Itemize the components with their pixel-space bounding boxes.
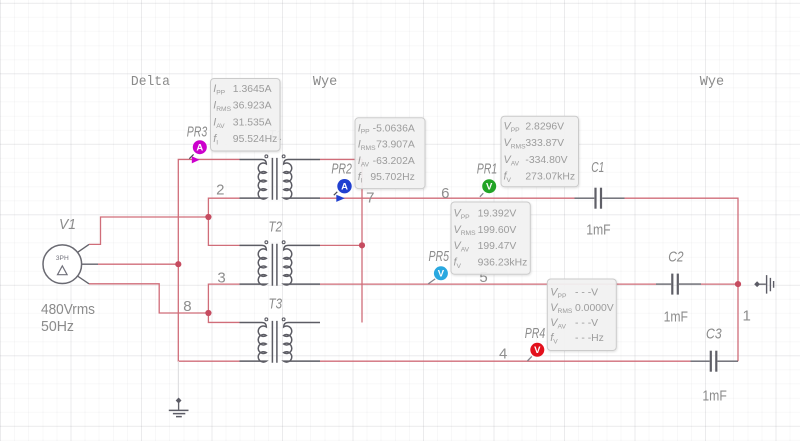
svg-text:1mF: 1mF	[586, 221, 610, 238]
svg-text:95.702Hz: 95.702Hz	[370, 172, 414, 183]
ground rotated at node 1	[754, 275, 773, 294]
label C3	[706, 326, 722, 342]
svg-text:V: V	[486, 182, 493, 193]
svg-text:1: 1	[743, 308, 751, 325]
svg-text:T2: T2	[269, 220, 283, 236]
svg-text:73.907A: 73.907A	[376, 140, 415, 151]
node 5	[479, 269, 487, 286]
svg-text:C1: C1	[591, 160, 604, 176]
text Wye left	[313, 74, 337, 90]
svg-text:V: V	[438, 269, 445, 280]
probe readout PR5	[451, 202, 530, 274]
probe PR5	[428, 266, 448, 284]
value 1mF C3	[702, 387, 726, 404]
svg-text:3: 3	[217, 269, 225, 286]
label V1	[59, 217, 76, 233]
junction node 2 / V1 top terminal	[205, 214, 211, 220]
voltage source V1	[43, 244, 98, 283]
svg-text:0.0000V: 0.0000V	[575, 303, 614, 314]
text Wye right	[700, 74, 724, 90]
capacitor C3	[691, 351, 739, 372]
junction node 8	[205, 310, 211, 316]
svg-text:-334.80V: -334.80V	[525, 155, 567, 166]
wire net 6/7 horizontal to C1	[320, 197, 575, 199]
node 3	[217, 269, 225, 286]
transformer T2	[240, 241, 321, 286]
junction at V1 middle terminal	[175, 261, 181, 267]
svg-text:A: A	[341, 182, 348, 193]
svg-text:-5.0636A: -5.0636A	[373, 123, 415, 134]
svg-text:PR3: PR3	[187, 124, 208, 140]
wire left vertical trunk T1 primary top to T3 primary bottom	[178, 159, 239, 361]
svg-text:- - -V: - - -V	[575, 318, 598, 329]
svg-text:95.524Hz: 95.524Hz	[233, 134, 277, 145]
svg-text:4: 4	[499, 345, 507, 362]
svg-text:- - -Hz: - - -Hz	[575, 333, 604, 344]
svg-text:273.07kHz: 273.07kHz	[525, 172, 575, 183]
svg-text:A: A	[196, 143, 203, 154]
label T1	[269, 128, 283, 144]
node 1	[743, 308, 751, 325]
label PR1	[477, 161, 498, 177]
wire to ground (0V net, light gray)	[177, 361, 179, 397]
svg-text:C3: C3	[706, 326, 722, 342]
wire V1 middle terminal to left vertical	[98, 263, 178, 265]
svg-text:-63.202A: -63.202A	[373, 156, 415, 167]
node 2	[216, 181, 224, 198]
wire C2 right to node 1 vertical	[701, 283, 737, 285]
svg-text:1mF: 1mF	[702, 387, 726, 404]
svg-text:2: 2	[216, 181, 224, 198]
wire T2 secondary top to net 7 junction	[320, 244, 362, 246]
transformer T3	[240, 318, 321, 363]
node 6	[441, 185, 449, 202]
capacitor C1	[575, 188, 625, 209]
svg-text:8: 8	[183, 298, 191, 315]
svg-text:7: 7	[366, 189, 374, 206]
label PR5	[428, 249, 449, 265]
svg-text:480Vrms: 480Vrms	[41, 301, 95, 318]
node 4	[499, 345, 507, 362]
wire node 3 to T3 primary top	[208, 284, 239, 322]
probe PR2	[334, 179, 352, 202]
svg-text:3PH: 3PH	[56, 255, 69, 262]
svg-text:Delta: Delta	[131, 74, 170, 90]
svg-text:333.87V: 333.87V	[525, 138, 564, 149]
svg-text:19.392V: 19.392V	[478, 209, 517, 220]
svg-text:- - -V: - - -V	[575, 288, 598, 299]
svg-text:PR5: PR5	[428, 249, 449, 265]
wire C1 right to right vertical down to C3	[625, 198, 739, 361]
probe readout PR4	[547, 279, 616, 351]
label PR2	[331, 162, 352, 178]
svg-text:199.60V: 199.60V	[478, 225, 517, 236]
text Delta	[131, 74, 170, 90]
label PR4	[525, 326, 546, 342]
svg-text:PR1: PR1	[477, 161, 498, 177]
label C1	[591, 160, 604, 176]
value 1mF C2	[664, 308, 688, 325]
label C2	[668, 249, 683, 265]
wire net 5 from T2 secondary bottom to C2	[320, 283, 656, 285]
ground	[169, 398, 189, 417]
svg-text:V: V	[534, 345, 541, 356]
capacitor C2	[656, 274, 701, 295]
junction net 7 at T2 secondary top	[359, 242, 365, 248]
wire net 4 from T3 secondary bottom to C3	[320, 360, 691, 362]
svg-text:1mF: 1mF	[664, 308, 688, 325]
svg-text:50Hz: 50Hz	[41, 318, 74, 335]
svg-text:2.8296V: 2.8296V	[525, 122, 564, 133]
svg-text:36.923A: 36.923A	[233, 101, 272, 112]
svg-text:C2: C2	[668, 249, 683, 265]
node 8	[183, 298, 191, 315]
label T3	[269, 297, 283, 313]
svg-text:PR2: PR2	[331, 162, 352, 178]
svg-text:Wye: Wye	[700, 74, 724, 90]
value 50Hz	[41, 318, 74, 335]
wire net top from V1 terminal 1 to node 2 junction	[89, 217, 208, 244]
probe PR3	[189, 140, 207, 163]
wire net 7 vertical T1 secondary top to T3 secondary top	[320, 159, 362, 322]
probe readout PR1	[501, 116, 579, 187]
value 480Vrms	[41, 301, 95, 318]
label T2	[269, 220, 283, 236]
probe readout PR2	[355, 118, 425, 189]
svg-text:31.535A: 31.535A	[233, 117, 272, 128]
wire node 2 to T2 primary top	[208, 198, 239, 245]
svg-text:6: 6	[441, 185, 449, 202]
svg-text:Wye: Wye	[313, 74, 337, 90]
svg-text:199.47V: 199.47V	[478, 241, 517, 252]
node 7	[366, 189, 374, 206]
svg-text:1.3645A: 1.3645A	[233, 84, 272, 95]
svg-text:V1: V1	[59, 217, 76, 233]
transformer T1	[240, 155, 321, 200]
wire net 8 from V1 bottom terminal	[89, 284, 208, 313]
svg-text:PR4: PR4	[525, 326, 546, 342]
label PR3	[187, 124, 208, 140]
svg-text:T3: T3	[269, 297, 283, 313]
probe readout PR3	[211, 79, 281, 152]
svg-text:936.23kHz: 936.23kHz	[478, 257, 528, 268]
probe PR4	[527, 343, 544, 361]
probe PR1	[480, 179, 496, 197]
junction node 1	[735, 281, 741, 287]
value 1mF C1	[586, 221, 610, 238]
